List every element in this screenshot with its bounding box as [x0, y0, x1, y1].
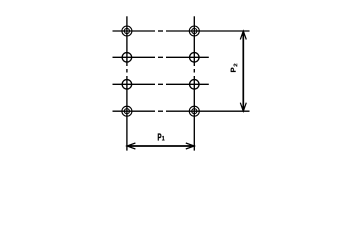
dimension P1 line: [128, 145, 193, 147]
pin row1 col1 inner circle: [124, 28, 129, 33]
pin row4 col2 outer circle: [189, 106, 199, 116]
column 2 vertical center line (lower segment, extension for P1): [193, 76, 195, 151]
row 2 horizontal center line (left segment): [113, 56, 156, 58]
pin row1 col1 outer circle: [122, 26, 132, 36]
row 2 horizontal center line (middle dash): [158, 56, 163, 58]
column 1 vertical center line (middle dash): [126, 69, 128, 73]
pin row3 col2 circle: [190, 80, 200, 90]
pin row1 col2 inner circle: [192, 28, 197, 33]
row 4 horizontal center line (right segment to P2 dimension): [166, 110, 250, 112]
row 1 horizontal center line (middle dash): [158, 30, 163, 32]
dimension P2 top arrowhead: [240, 31, 246, 40]
pin row2 col1 circle: [122, 53, 131, 63]
pin row1 col2 outer circle: [189, 26, 199, 36]
row 2 horizontal center line (right segment): [166, 56, 209, 58]
row 3 horizontal center line (left segment): [113, 83, 156, 85]
column 2 vertical center line (middle dash): [193, 69, 195, 73]
dimension P1 right arrowhead: [186, 143, 195, 149]
dimension P2 line: [242, 32, 244, 110]
dimension P1 left arrowhead: [127, 143, 135, 149]
row 1 horizontal center line (right segment to P2 dimension): [166, 30, 250, 32]
pin row4 col1 outer circle: [122, 106, 132, 116]
row 3 horizontal center line (middle dash): [158, 83, 163, 85]
row 1 horizontal center line (left segment): [113, 30, 156, 32]
dimension P1 label: [158, 134, 165, 141]
dimension P2 bottom arrowhead: [240, 103, 246, 112]
pin row4 col1 inner circle: [124, 109, 129, 114]
pin row3 col1 circle: [122, 80, 131, 90]
row 3 horizontal center line (right segment): [166, 83, 209, 85]
row 4 horizontal center line (left segment): [113, 110, 156, 112]
row 4 horizontal center line (middle dash): [158, 110, 163, 112]
column 2 vertical center line (upper segment): [193, 16, 195, 66]
column 1 vertical center line (lower segment, extension for P1): [126, 76, 128, 151]
dimension P2 label (rotated): [231, 64, 238, 72]
pin row2 col2 circle: [190, 53, 200, 63]
column 1 vertical center line (upper segment): [126, 16, 128, 66]
pin row4 col2 inner circle: [192, 109, 197, 114]
